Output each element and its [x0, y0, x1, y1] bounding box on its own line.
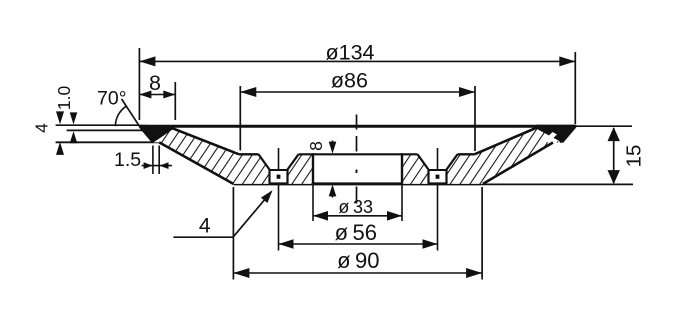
- wheel bottom face: [233, 182, 481, 185]
- right upper cone edge: [475, 128, 538, 155]
- right hole centerline below / ø56 extension: [437, 184, 439, 251]
- left hole walls: [268, 170, 270, 184]
- svg-text:4: 4: [199, 215, 211, 238]
- svg-text:1.0: 1.0: [54, 86, 74, 111]
- leader 4 (number of holes): [173, 236, 233, 238]
- svg-text:ø 56: ø 56: [335, 220, 377, 245]
- svg-text:70°: 70°: [97, 87, 127, 109]
- svg-text:ø86: ø86: [331, 69, 368, 93]
- right tip solid black: [536, 125, 576, 143]
- right hatched section (rim band + hub): [447, 128, 561, 184]
- right hole center dot: [436, 175, 440, 179]
- svg-text:8: 8: [149, 71, 161, 95]
- left countersink walls: [259, 154, 270, 170]
- dim 1.5 line with outside arrows: [142, 165, 172, 167]
- left tip solid black: [139, 125, 173, 143]
- top face extension right (for 15 dim): [576, 125, 632, 127]
- left upper cone edge: [169, 127, 239, 154]
- svg-text:ø 90: ø 90: [337, 248, 379, 273]
- bottom face extension right (for 15 dim): [482, 183, 633, 185]
- dim ø33 line: [312, 184, 314, 221]
- left hole center dot: [277, 175, 281, 179]
- dim ø86 extension lines: [239, 86, 241, 151]
- right tip face: [560, 126, 576, 142]
- dim 1.0 arrows: [70, 112, 78, 124]
- svg-text:ø134: ø134: [325, 41, 374, 65]
- left tip 70-degree face: [139, 126, 153, 142]
- dim 8 (hub height) upper arrow: [332, 141, 334, 147]
- right tip white hatch sliver: [544, 132, 558, 143]
- dim ø134 line: [139, 60, 575, 62]
- svg-text:8: 8: [306, 141, 326, 151]
- dim 8 line with arrows: [139, 94, 175, 96]
- dim ø86 line: [240, 91, 475, 93]
- dim 8 (rim width) extension line: [174, 82, 176, 120]
- left hatched section (rim band + hub): [153, 127, 270, 184]
- right lower cone edge: [483, 143, 553, 184]
- vertical centerline of wheel axis: [356, 115, 358, 130]
- dim ø90 extension lines: [232, 187, 234, 280]
- line C rim underside y=142: [56, 141, 160, 143]
- left hole centerline above: [278, 148, 280, 170]
- dim 1.5 tick lines: [152, 146, 154, 175]
- bore wall left (ø33): [312, 153, 314, 184]
- dim 70 degrees arc: [115, 106, 126, 126]
- wheel top face: [139, 125, 575, 128]
- dim ø90 line: [233, 272, 482, 274]
- dim 70 degrees slant line: [122, 99, 140, 126]
- top face extension left (for 4 / 1.0 dims): [56, 124, 140, 126]
- left hole centerline below / ø56 extension: [278, 184, 280, 251]
- hub top face y=154 segments: [239, 153, 259, 155]
- svg-text:4: 4: [32, 123, 52, 133]
- line B rim step edge y=130: [67, 129, 144, 131]
- svg-text:ø 33: ø 33: [338, 197, 373, 217]
- dim 8 (hub height) lower arrow: [332, 192, 334, 198]
- svg-text:1.5: 1.5: [114, 149, 141, 171]
- right hub section between hole and bore: [402, 154, 429, 184]
- right countersink walls: [418, 154, 429, 170]
- svg-text:15: 15: [623, 145, 646, 168]
- right hole centerline above: [437, 148, 439, 170]
- dim 4 (left) arrows: [56, 111, 64, 124]
- bore wall right (ø33): [401, 153, 403, 184]
- left hub section between hole and bore: [288, 154, 314, 184]
- dim ø134 extension lines: [138, 48, 140, 120]
- dim 15 double arrow: [613, 128, 615, 183]
- left lower cone edge: [159, 142, 233, 184]
- right hole walls: [427, 170, 429, 184]
- dim ø56 line: [279, 243, 438, 245]
